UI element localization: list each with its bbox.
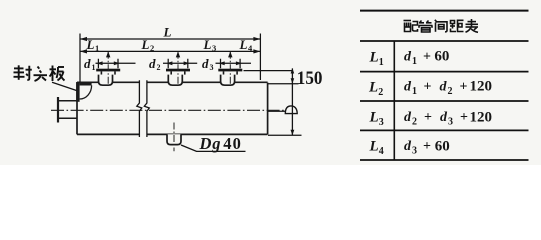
svg-text:60: 60 — [435, 138, 450, 154]
table top line — [360, 10, 529, 12]
svg-text:150: 150 — [297, 67, 323, 88]
svg-text:3: 3 — [448, 117, 453, 128]
extension line left — [79, 34, 81, 83]
头 — [34, 67, 48, 82]
left nozzle pipe — [59, 101, 78, 118]
D dim bottom arrow — [291, 130, 295, 136]
label D (rotated) — [285, 106, 297, 114]
svg-text:+: + — [424, 79, 432, 94]
svg-text:3: 3 — [210, 63, 214, 72]
d2 arrows — [166, 61, 172, 65]
nozzle N2 boss — [168, 75, 182, 86]
svg-text:+: + — [424, 110, 432, 125]
Dg40 leader line — [181, 145, 246, 151]
nozzle N2 flange — [166, 69, 190, 72]
svg-text:L: L — [86, 37, 95, 52]
svg-text:d: d — [404, 110, 412, 125]
nozzle N3 neck — [224, 71, 238, 74]
150 top arrow — [291, 68, 295, 74]
距 — [450, 20, 464, 31]
svg-text:d: d — [84, 56, 91, 71]
svg-text:2: 2 — [412, 117, 417, 128]
bottom extension line — [268, 134, 302, 136]
centerline stub to D dim — [268, 110, 285, 112]
head plate vertical section — [76, 82, 79, 102]
d1 dimension line — [96, 62, 136, 64]
svg-text:120: 120 — [470, 109, 493, 125]
svg-text:d: d — [149, 56, 156, 71]
table bottom line — [360, 159, 529, 161]
svg-text:+: + — [460, 79, 468, 94]
left nozzle flange — [57, 97, 59, 123]
svg-text:L: L — [163, 25, 172, 40]
svg-text:L: L — [239, 37, 248, 52]
table row line 3 — [360, 129, 529, 131]
表 — [466, 19, 479, 32]
nozzle N3 flange — [218, 69, 242, 72]
nozzle N1 neck — [101, 71, 115, 74]
svg-text:+: + — [460, 110, 468, 125]
svg-text:1: 1 — [412, 86, 417, 97]
tick at vessel top level — [268, 83, 299, 85]
nozzle N1 flange — [96, 69, 120, 72]
L1 line left arrow — [80, 49, 87, 53]
管 — [419, 21, 433, 33]
d1 ext ticks — [98, 59, 118, 69]
svg-text:d: d — [202, 56, 209, 71]
nozzle N2 dim arrow up — [176, 51, 180, 57]
dimension line L1-L4 — [80, 50, 260, 52]
nozzle N3 boss — [221, 75, 235, 86]
svg-text:+: + — [423, 49, 431, 64]
d3 arrows — [219, 61, 225, 65]
arrow down to tick — [291, 78, 295, 84]
d1 arrows — [97, 61, 103, 65]
svg-text:120: 120 — [470, 79, 493, 95]
配 — [404, 21, 418, 32]
table row line 2 — [360, 100, 529, 102]
svg-text:1: 1 — [92, 63, 96, 72]
head plate inner arc — [80, 85, 92, 99]
d3 dimension line — [216, 62, 252, 64]
table column divider — [393, 41, 395, 160]
间 — [435, 20, 447, 32]
head plate top flanged rim (hatched dark) — [80, 82, 92, 86]
svg-text:L: L — [141, 37, 150, 52]
table header separator — [360, 40, 529, 42]
svg-text:1: 1 — [95, 43, 99, 53]
svg-text:L: L — [369, 110, 379, 126]
svg-text:1: 1 — [412, 56, 417, 67]
板 — [50, 66, 65, 82]
nozzle N1 centerline — [107, 52, 109, 85]
svg-text:2: 2 — [150, 43, 154, 53]
d3 ext ticks — [221, 59, 241, 69]
nozzle N2 neck — [171, 71, 185, 74]
svg-text:Dg: Dg — [199, 134, 222, 153]
svg-text:d: d — [404, 139, 412, 154]
L right arrow — [253, 37, 260, 41]
svg-text:d: d — [404, 79, 412, 94]
leader line fengtouban — [52, 82, 77, 90]
svg-text:3: 3 — [212, 43, 216, 53]
svg-text:+: + — [423, 139, 431, 154]
nozzle N3 dim arrow up — [228, 51, 232, 57]
break line left — [137, 80, 142, 137]
svg-text:2: 2 — [157, 63, 161, 72]
extension line right — [259, 34, 261, 81]
nozzle N1 dim arrow up — [106, 51, 110, 57]
nozzle N3 centerline — [229, 52, 231, 85]
svg-text:L: L — [369, 49, 379, 65]
vessel centerline — [51, 109, 286, 111]
svg-text:40: 40 — [223, 134, 242, 153]
svg-text:L: L — [369, 139, 379, 155]
150 connector line — [244, 70, 294, 72]
svg-text:4: 4 — [379, 146, 384, 157]
svg-text:1: 1 — [379, 57, 384, 68]
svg-text:d: d — [440, 110, 448, 125]
bottom nozzle centerline — [173, 123, 175, 152]
svg-text:d: d — [440, 79, 448, 94]
svg-text:3: 3 — [412, 146, 417, 157]
svg-text:2: 2 — [448, 86, 453, 97]
table row line 1 — [360, 71, 529, 73]
break line right — [144, 80, 149, 137]
svg-text:d: d — [404, 49, 412, 64]
d2 ext ticks — [168, 59, 188, 69]
svg-text:2: 2 — [378, 87, 383, 98]
table header 配管间距表 (hand-drawn glyphs) — [404, 19, 479, 32]
nozzle N2 centerline — [177, 52, 179, 85]
nozzle N1 boss — [99, 75, 113, 86]
bottom nozzle boss Dg40 — [167, 134, 181, 144]
d2 dimension line — [163, 62, 197, 64]
L1 line right arrow — [253, 49, 260, 53]
封 — [14, 65, 32, 80]
label fengtouban 封头板 (hand-drawn glyphs) — [14, 65, 65, 81]
svg-text:60: 60 — [434, 49, 449, 65]
svg-text:3: 3 — [379, 117, 384, 128]
L left arrow — [80, 37, 87, 41]
dimension line L — [80, 38, 260, 40]
vessel shell outline — [77, 82, 268, 134]
svg-text:L: L — [203, 37, 212, 52]
150 dim vertical line — [291, 68, 293, 135]
svg-text:L: L — [368, 80, 378, 96]
